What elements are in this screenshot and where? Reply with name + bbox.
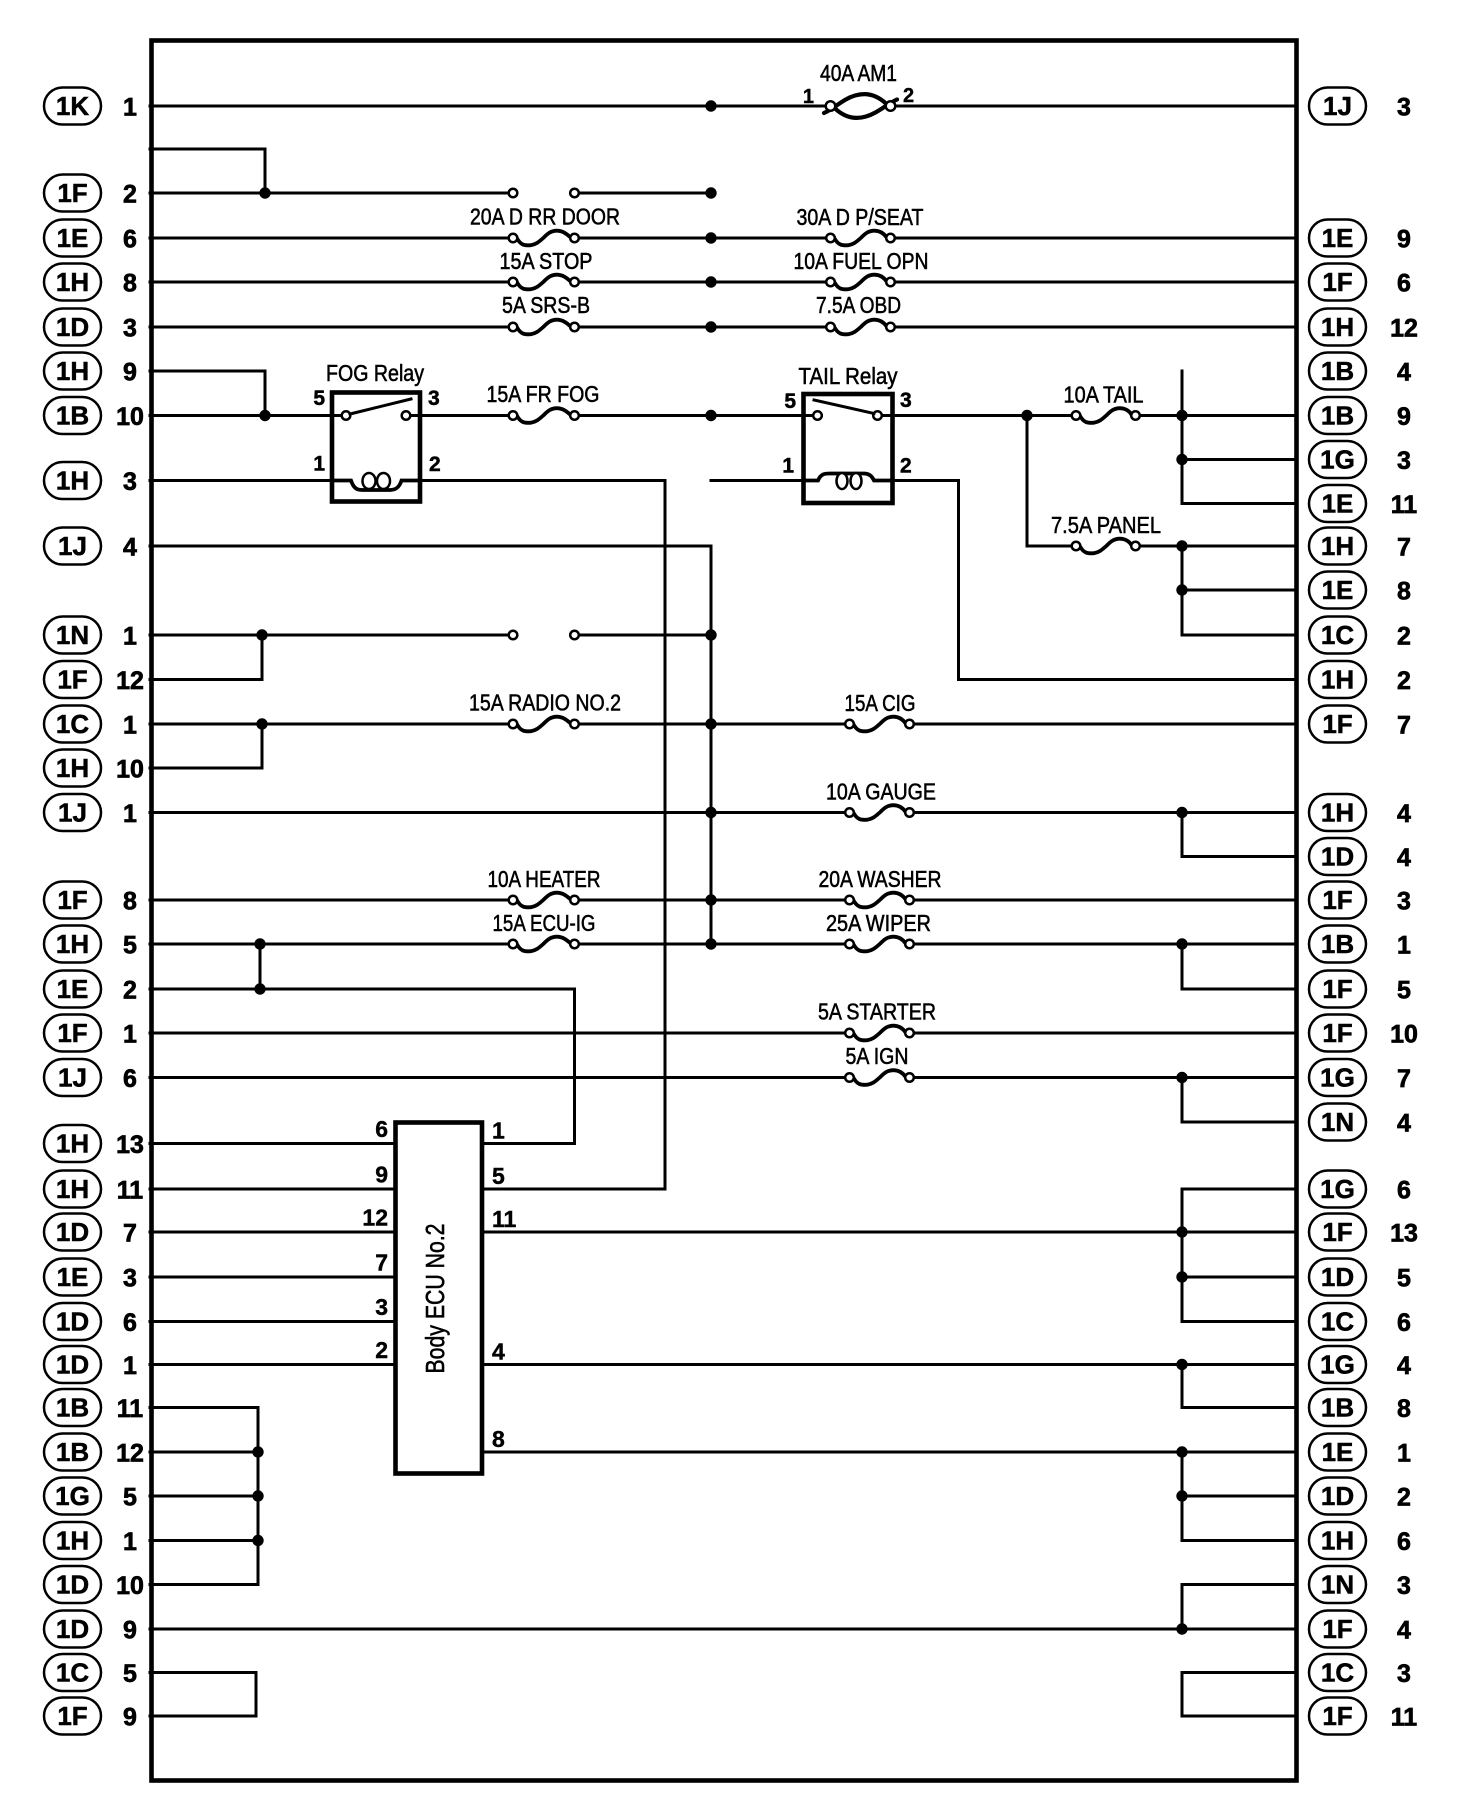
svg-text:7.5A OBD: 7.5A OBD: [816, 292, 901, 318]
wire bracket 1N-3/1F-4: [1181, 1585, 1184, 1630]
fuse 30A D P/SEAT: [826, 231, 895, 246]
wire 1C-1/1H-10 bracket: [261, 724, 264, 768]
connector 1F pin 13 (right): [1309, 1214, 1418, 1251]
svg-text:1J: 1J: [58, 798, 87, 828]
svg-text:11: 11: [117, 1177, 144, 1205]
wire ECU pin5 lead: [482, 1188, 665, 1191]
connector 1C pin 2 (right): [1309, 617, 1411, 654]
junction at 260,944: [254, 938, 265, 949]
wire 1F-8 / HEATER / WASHER to 1F-3: [150, 899, 1296, 902]
svg-text:10: 10: [1390, 1021, 1418, 1049]
svg-text:1F: 1F: [57, 665, 87, 695]
svg-text:6: 6: [1397, 1309, 1411, 1337]
wire 1D-6 to ECU pin3: [150, 1320, 396, 1323]
connector 1E pin 11 (right): [1309, 485, 1417, 522]
fuse 5A SRS-B: [509, 320, 579, 335]
svg-text:10A FUEL OPN: 10A FUEL OPN: [794, 248, 929, 274]
connector 1F pin 11 (right): [1309, 1698, 1417, 1735]
wire 1H-8 / STOP / FUEL OPN to 1F-6: [150, 281, 1296, 284]
connector 1F pin 12 (left): [44, 661, 144, 698]
connector 1J pin 4 (left): [44, 528, 137, 565]
connector 1G pin 5 (left): [44, 1478, 137, 1515]
fuse 15A RADIO NO.2: [509, 717, 579, 732]
wire 1H-11 to ECU pin9: [150, 1188, 396, 1191]
fuse 5A IGN: [845, 1070, 914, 1085]
svg-text:3: 3: [123, 468, 137, 496]
svg-text:1: 1: [492, 1118, 505, 1144]
wire 1N-1/1F-12 bracket: [261, 635, 264, 680]
connector 1E pin 1 (right): [1309, 1434, 1411, 1471]
wire 1G-5 stub: [150, 1495, 258, 1498]
connector 1H pin 9 (left): [44, 353, 137, 390]
svg-text:2: 2: [123, 977, 137, 1005]
svg-text:3: 3: [428, 387, 440, 410]
svg-text:1J: 1J: [58, 531, 87, 561]
svg-text:1F: 1F: [1322, 1217, 1352, 1247]
connector 1H pin 13 (left): [44, 1125, 144, 1162]
wire 1D-3 / SRS-B / OBD to 1H-12: [150, 326, 1296, 329]
fuse 10A FUEL OPN: [826, 275, 895, 290]
svg-text:12: 12: [1390, 315, 1418, 343]
svg-text:12: 12: [362, 1205, 388, 1231]
svg-text:9: 9: [123, 1704, 137, 1732]
svg-text:15A ECU-IG: 15A ECU-IG: [493, 910, 596, 936]
svg-text:9: 9: [123, 359, 137, 387]
connector 1B pin 9 (right): [1309, 397, 1411, 434]
svg-text:4: 4: [1397, 844, 1411, 872]
junction at 1182,812.5: [1176, 807, 1187, 818]
connector 1J pin 1 (left): [44, 794, 137, 831]
svg-text:1H: 1H: [56, 356, 89, 386]
svg-text:10: 10: [116, 1572, 144, 1600]
svg-text:9: 9: [123, 1617, 137, 1645]
svg-text:15A CIG: 15A CIG: [845, 690, 916, 716]
connector 1C pin 1 (left): [44, 706, 137, 743]
connector 1D pin 6 (left): [44, 1303, 137, 1340]
wire bus1 to TAIL coil pin1: [711, 479, 805, 482]
wire 1H-9 stub: [150, 370, 265, 373]
Body ECU No.2 box: [396, 1123, 483, 1474]
svg-text:8: 8: [492, 1426, 505, 1452]
svg-text:1E: 1E: [1322, 575, 1354, 605]
wire ECU pin1 riser: [573, 989, 576, 1144]
connector 1D pin 7 (left): [44, 1214, 137, 1251]
wire 1F-1 / STARTER to 1F-10: [150, 1032, 1296, 1035]
svg-text:1: 1: [803, 86, 814, 108]
wire bracket 1G-7/1N-4: [1181, 1078, 1184, 1123]
connector 1K pin 1 (left): [44, 88, 137, 125]
wire TAIL pin2 drop: [957, 481, 960, 680]
svg-text:10A HEATER: 10A HEATER: [488, 866, 601, 892]
connector 1F pin 5 (right): [1309, 971, 1411, 1008]
connector 1E pin 9 (right): [1309, 220, 1411, 257]
junction at 265,415.5: [259, 410, 270, 421]
wire ECU pin8 to 1E-1: [482, 1451, 1296, 1454]
svg-text:4: 4: [492, 1339, 505, 1365]
svg-text:5A SRS-B: 5A SRS-B: [502, 292, 590, 318]
svg-text:TAIL Relay: TAIL Relay: [799, 363, 898, 389]
svg-text:1: 1: [313, 453, 325, 476]
svg-text:4: 4: [1397, 359, 1411, 387]
svg-text:10A TAIL: 10A TAIL: [1064, 382, 1144, 408]
svg-text:1E: 1E: [57, 974, 89, 1004]
wire 1H-9 drop to 1B-10 row: [264, 371, 267, 416]
svg-text:1: 1: [123, 712, 137, 740]
fuse 20A D RR DOOR: [509, 231, 579, 246]
wire 1D-7 to ECU pin12: [150, 1231, 396, 1234]
svg-text:8: 8: [1397, 1395, 1411, 1423]
svg-text:1D: 1D: [56, 1307, 89, 1337]
wire 1C-3 stub: [1182, 1671, 1296, 1674]
TAIL relay armature: [814, 400, 874, 414]
connector 1H pin 1 (left): [44, 1522, 137, 1559]
junction at 711,635: [705, 629, 716, 640]
FOG relay armature: [350, 399, 411, 414]
wire 1J-1 / GAUGE to 1H-4: [150, 811, 1296, 814]
relay FOG Relay box: [332, 393, 420, 502]
svg-text:8: 8: [123, 270, 137, 298]
wire bracket 1H-4/1D-4: [1181, 813, 1184, 857]
svg-text:6: 6: [1397, 270, 1411, 298]
TAIL relay contact circles: [813, 411, 882, 420]
svg-text:3: 3: [375, 1294, 388, 1320]
connector 1F pin 9 (left): [44, 1698, 137, 1735]
wire FOG coil pin2 to ECU drop: [420, 479, 665, 482]
svg-text:6: 6: [1397, 1177, 1411, 1205]
svg-text:1K: 1K: [56, 91, 89, 121]
connector 1D pin 5 (right): [1309, 1259, 1411, 1296]
svg-text:1N: 1N: [1321, 1570, 1354, 1600]
svg-text:1D: 1D: [56, 1570, 89, 1600]
svg-text:1H: 1H: [56, 753, 89, 783]
svg-text:20A D RR DOOR: 20A D RR DOOR: [470, 204, 620, 230]
wire 1D-10 stub: [150, 1583, 258, 1586]
svg-text:13: 13: [1390, 1220, 1418, 1248]
wire ECU pin4 to 1G-4: [482, 1363, 1296, 1366]
junction at 711,900: [705, 894, 716, 905]
svg-text:1F: 1F: [1322, 974, 1352, 1004]
svg-text:1: 1: [123, 1021, 137, 1049]
junction at 1027,415.5: [1021, 410, 1032, 421]
wire 1F-12 stub: [150, 678, 262, 681]
svg-text:1: 1: [123, 800, 137, 828]
wire 1D-1 to ECU pin2: [150, 1363, 396, 1366]
wire ECU pin1 lead: [482, 1142, 575, 1145]
connector 1E pin 2 (left): [44, 971, 137, 1008]
fuse 10A GAUGE: [845, 805, 914, 820]
connector 1H pin 5 (left): [44, 926, 137, 963]
svg-text:1D: 1D: [56, 1217, 89, 1247]
wire 1H-13 to ECU pin6: [150, 1142, 396, 1145]
svg-text:11: 11: [1391, 491, 1418, 519]
svg-text:5: 5: [1397, 1265, 1411, 1293]
fuse 15A STOP: [509, 275, 579, 290]
svg-text:1N: 1N: [56, 620, 89, 650]
svg-text:5A IGN: 5A IGN: [846, 1043, 909, 1069]
connector 1J pin 6 (left): [44, 1059, 137, 1096]
svg-text:8: 8: [1397, 578, 1411, 606]
wire 1B-12 stub: [150, 1451, 258, 1454]
connector 1B pin 11 (left): [44, 1389, 143, 1426]
svg-text:6: 6: [375, 1116, 388, 1142]
wire bus2 vertical: [710, 546, 713, 944]
wire 1D-2 stub: [1182, 1495, 1296, 1498]
connector 1H pin 6 (right): [1309, 1522, 1411, 1559]
wire 1D-9 to 1F-4: [150, 1628, 1296, 1631]
connector 1F pin 1 (left): [44, 1015, 137, 1052]
wire 1B-11 stub: [150, 1406, 258, 1409]
fuse 10A TAIL: [1072, 408, 1140, 423]
fuse 7.5A PANEL: [1072, 539, 1140, 554]
svg-text:1H: 1H: [1321, 531, 1354, 561]
svg-text:4: 4: [1397, 1352, 1411, 1380]
svg-text:5: 5: [1397, 977, 1411, 1005]
wire TAIL coil pin2 out: [891, 479, 959, 482]
junction at 1182,459.5: [1176, 454, 1187, 465]
TAIL relay coil: [805, 473, 891, 489]
svg-text:1D: 1D: [1321, 1481, 1354, 1511]
svg-text:1F: 1F: [57, 178, 87, 208]
fusible link 40A AM1: [824, 94, 897, 118]
connector 1G pin 3 (right): [1309, 441, 1411, 478]
wire bracket 1H-7/1C-2: [1181, 546, 1184, 635]
svg-text:1J: 1J: [58, 1063, 87, 1093]
svg-text:9: 9: [1397, 403, 1411, 431]
wire 1G-3 stub: [1182, 458, 1296, 461]
connector 1F pin 3 (right): [1309, 882, 1411, 919]
wire 1H-1 stub: [150, 1539, 258, 1542]
connector 1H pin 8 (left): [44, 264, 137, 301]
fuse 15A CIG: [845, 717, 914, 732]
junction at 711,812.5: [705, 807, 716, 818]
fuse 15A FR FOG: [509, 408, 579, 423]
svg-text:6: 6: [123, 1065, 137, 1093]
connector 1G pin 7 (right): [1309, 1059, 1411, 1096]
fuse 20A WASHER: [845, 893, 914, 908]
svg-text:3: 3: [123, 315, 137, 343]
svg-text:1C: 1C: [56, 709, 89, 739]
connector 1N pin 4 (right): [1309, 1104, 1411, 1141]
svg-text:1B: 1B: [56, 1393, 89, 1423]
junction at 711,415.5: [705, 410, 716, 421]
svg-text:7: 7: [375, 1250, 388, 1276]
svg-text:30A D P/SEAT: 30A D P/SEAT: [797, 204, 924, 230]
svg-text:2: 2: [903, 85, 914, 107]
svg-text:2: 2: [123, 181, 137, 209]
wire 1E-11 stub: [1182, 502, 1296, 505]
svg-text:15A STOP: 15A STOP: [500, 248, 593, 274]
svg-text:1H: 1H: [56, 267, 89, 297]
connector 1B pin 10 (left): [44, 397, 144, 434]
svg-text:9: 9: [1397, 226, 1411, 254]
connector 1H pin 2 (right): [1309, 661, 1411, 698]
junction at 265,193: [259, 187, 270, 198]
wire 1J-4 to bus2: [150, 545, 711, 548]
svg-text:2: 2: [1397, 623, 1411, 651]
junction at 1182,415.5: [1176, 410, 1187, 421]
switch contacts on 1F-2 row: [509, 189, 579, 198]
svg-text:1N: 1N: [1321, 1107, 1354, 1137]
junction at 1182,1232: [1176, 1226, 1187, 1237]
svg-text:1F: 1F: [1322, 1614, 1352, 1644]
connector 1J pin 3 (right): [1309, 88, 1411, 125]
svg-text:1E: 1E: [1322, 223, 1354, 253]
wire 1E-2 to ECU pin1 riser: [150, 988, 575, 991]
wire 1C-5/1F-9 bracket: [255, 1673, 258, 1717]
connector 1N pin 3 (right): [1309, 1566, 1411, 1603]
svg-text:1C: 1C: [1321, 620, 1354, 650]
wire 1C-2 stub: [1182, 634, 1296, 637]
connector 1H pin 12 (right): [1309, 309, 1418, 346]
wire 1E-6 / D RR DOOR / D P-SEAT to 1E-9: [150, 237, 1296, 240]
svg-text:1: 1: [1397, 932, 1411, 960]
svg-text:1F: 1F: [1322, 1018, 1352, 1048]
svg-text:1C: 1C: [56, 1658, 89, 1688]
connector 1F pin 10 (right): [1309, 1015, 1418, 1052]
connector 1D pin 2 (right): [1309, 1478, 1411, 1515]
svg-text:2: 2: [900, 455, 912, 478]
svg-text:1E: 1E: [57, 1262, 89, 1292]
fuse 15A ECU-IG: [509, 937, 579, 952]
junction at 258,1496: [252, 1490, 263, 1501]
connector 1F pin 4 (right): [1309, 1611, 1411, 1648]
connector 1D pin 10 (left): [44, 1566, 144, 1603]
svg-text:5: 5: [492, 1163, 505, 1189]
svg-text:1: 1: [782, 455, 794, 478]
svg-text:1H: 1H: [56, 1526, 89, 1556]
svg-text:1H: 1H: [56, 1174, 89, 1204]
svg-text:1D: 1D: [56, 1350, 89, 1380]
connector 1H pin 4 (right): [1309, 794, 1411, 831]
connector 1D pin 4 (right): [1309, 838, 1411, 875]
svg-text:FOG Relay: FOG Relay: [326, 360, 424, 386]
svg-text:10: 10: [116, 403, 144, 431]
svg-text:2: 2: [375, 1337, 388, 1363]
svg-text:1: 1: [1397, 1440, 1411, 1468]
connector 1H pin 10 (left): [44, 750, 144, 787]
svg-text:1: 1: [123, 1528, 137, 1556]
connector 1C pin 3 (right): [1309, 1654, 1411, 1691]
wire 1H-5/1E-2 bracket: [259, 944, 262, 989]
svg-text:1B: 1B: [1321, 356, 1354, 386]
fuse 25A WIPER: [845, 937, 914, 952]
svg-text:1B: 1B: [1321, 929, 1354, 959]
svg-text:3: 3: [1397, 1572, 1411, 1600]
junction at 1182,1452: [1176, 1446, 1187, 1457]
connector 1E pin 8 (right): [1309, 572, 1411, 609]
connector 1H pin 7 (right): [1309, 528, 1411, 565]
svg-text:1G: 1G: [55, 1481, 90, 1511]
connector 1F pin 6 (right): [1309, 264, 1411, 301]
svg-text:12: 12: [116, 1440, 144, 1468]
svg-text:5: 5: [784, 390, 796, 413]
wire 1G-6 stub: [1182, 1188, 1296, 1191]
connector 1E pin 6 (left): [44, 220, 137, 257]
svg-text:11: 11: [492, 1206, 517, 1232]
junction at 711,193: [705, 187, 716, 198]
wire 1B-10 / FOG switch / FR FOG / TAIL switch / TAIL fuse to 1B-9: [150, 414, 1296, 417]
svg-text:1F: 1F: [57, 1018, 87, 1048]
connector 1B pin 8 (right): [1309, 1389, 1411, 1426]
svg-text:2: 2: [1397, 1484, 1411, 1512]
svg-text:1D: 1D: [56, 1614, 89, 1644]
junction at 262,635: [256, 629, 267, 640]
svg-text:Body ECU No.2: Body ECU No.2: [420, 1224, 450, 1374]
junction at 1182,546: [1176, 540, 1187, 551]
fuse 7.5A OBD: [826, 320, 895, 335]
fuse 10A HEATER: [509, 893, 579, 908]
wire 1C-5 stub: [150, 1671, 256, 1674]
wire bracket 1B-1/1F-5: [1181, 944, 1184, 989]
svg-text:3: 3: [1397, 94, 1411, 122]
wire ECU pin11 to 1F-13: [482, 1231, 1296, 1234]
wire 1N-4 stub: [1182, 1121, 1296, 1124]
wire 1C-6 stub: [1182, 1320, 1296, 1323]
svg-text:1D: 1D: [56, 312, 89, 342]
svg-text:9: 9: [375, 1162, 388, 1188]
connector 1G pin 4 (right): [1309, 1346, 1411, 1383]
connector 1H pin 3 (left): [44, 462, 137, 499]
svg-text:1G: 1G: [1320, 1063, 1355, 1093]
svg-text:1C: 1C: [1321, 1307, 1354, 1337]
wire 1D-4 stub: [1182, 855, 1296, 858]
svg-text:7: 7: [1397, 712, 1411, 740]
svg-text:13: 13: [116, 1131, 144, 1159]
svg-text:7: 7: [123, 1220, 137, 1248]
wire TAIL output drop to PANEL: [1026, 416, 1029, 547]
svg-text:1: 1: [123, 94, 137, 122]
wire jog from border to 1F-2 branch: [150, 148, 265, 151]
junction at 711,327: [705, 321, 716, 332]
svg-text:8: 8: [123, 888, 137, 916]
svg-text:4: 4: [123, 534, 137, 562]
connector 1B pin 1 (right): [1309, 926, 1411, 963]
wire bracket 1G-6/1C-6: [1181, 1189, 1184, 1322]
svg-text:6: 6: [123, 1309, 137, 1337]
connector 1F pin 8 (left): [44, 882, 137, 919]
wire 1B-8 stub: [1182, 1406, 1296, 1409]
svg-text:7.5A PANEL: 7.5A PANEL: [1051, 512, 1161, 538]
svg-text:1H: 1H: [56, 1129, 89, 1159]
svg-text:1F: 1F: [1322, 1701, 1352, 1731]
svg-text:11: 11: [1391, 1704, 1418, 1732]
svg-text:1D: 1D: [1321, 842, 1354, 872]
svg-text:5: 5: [123, 932, 137, 960]
svg-text:1F: 1F: [1322, 885, 1352, 915]
svg-text:6: 6: [123, 226, 137, 254]
svg-text:3: 3: [1397, 1660, 1411, 1688]
wire jog drop to 1F-2: [264, 149, 267, 193]
svg-text:3: 3: [1397, 888, 1411, 916]
wire bracket 1B-4/1E-11: [1181, 371, 1184, 504]
connector 1D pin 1 (left): [44, 1346, 137, 1383]
svg-text:1G: 1G: [1320, 445, 1355, 475]
outer border frame: [152, 41, 1297, 1781]
svg-text:1J: 1J: [1323, 91, 1352, 121]
wire bracket 1G-4/1B-8: [1181, 1365, 1184, 1408]
svg-text:1H: 1H: [1321, 312, 1354, 342]
FOG relay contact circles: [342, 411, 411, 420]
wire 1K-1 to 40A AM1 to 1J-3: [150, 105, 1296, 108]
connector 1H pin 11 (left): [44, 1171, 143, 1208]
wire TAIL pin2 to 1H-2: [959, 678, 1297, 681]
svg-text:4: 4: [1397, 1110, 1411, 1138]
svg-text:1E: 1E: [1322, 1437, 1354, 1467]
svg-text:10: 10: [116, 756, 144, 784]
switch contacts on 1N-1 row: [509, 631, 579, 640]
junction at 1182,944: [1176, 938, 1187, 949]
svg-text:1G: 1G: [1320, 1174, 1355, 1204]
